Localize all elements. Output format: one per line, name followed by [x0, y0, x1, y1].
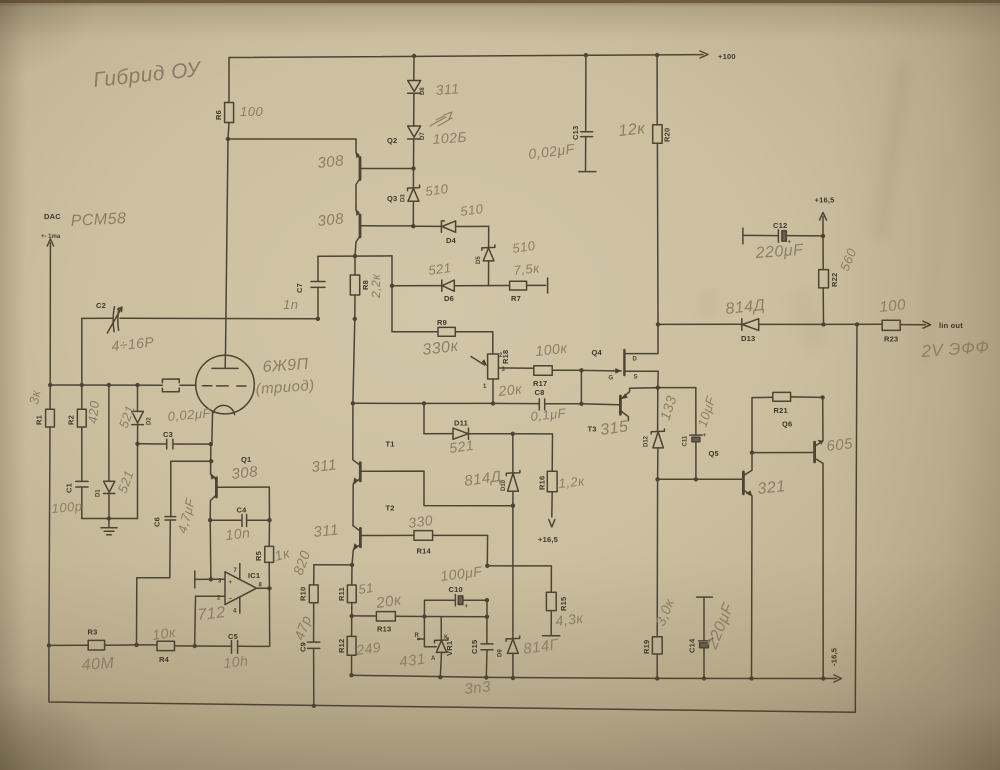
svg-text:1n: 1n — [283, 297, 298, 312]
node R20 D13 junction — [656, 322, 660, 326]
transistor T1 — [311, 403, 513, 525]
resistor R19 — [642, 595, 678, 678]
ground — [101, 519, 117, 535]
svg-text:R23: R23 — [884, 335, 898, 344]
svg-text:D3: D3 — [401, 194, 407, 202]
svg-text:100к: 100к — [535, 340, 569, 359]
svg-text:D11: D11 — [454, 419, 468, 428]
node D12 C11 bottom junction — [655, 477, 698, 481]
svg-text:R13: R13 — [377, 625, 391, 634]
wire D6 branch — [390, 256, 442, 288]
wire C7 R8 top — [318, 255, 392, 257]
svg-text:10n: 10n — [225, 524, 251, 543]
variable capacitor C2 — [82, 301, 318, 354]
svg-text:R9: R9 — [437, 318, 447, 327]
svg-text:R11: R11 — [337, 587, 346, 601]
wire R13 line to C15 — [424, 615, 489, 619]
svg-text:R: R — [415, 633, 420, 639]
capacitor C3 — [138, 405, 213, 449]
svg-text:C10: C10 — [449, 585, 463, 594]
svg-text:R2: R2 — [67, 415, 76, 425]
svg-text:T2: T2 — [386, 504, 395, 513]
svg-text:311: 311 — [313, 521, 340, 541]
svg-text:Q3: Q3 — [387, 194, 397, 203]
svg-text:20к: 20к — [497, 381, 524, 400]
node R8 bottom junction — [353, 317, 357, 321]
wire cathode rail to pin3 — [209, 520, 213, 581]
svg-text:521: 521 — [448, 437, 475, 456]
diode D13 — [658, 297, 824, 343]
svg-text:10h: 10h — [223, 652, 249, 671]
capacitor C7 — [283, 256, 325, 319]
svg-text:102Б: 102Б — [432, 129, 468, 147]
svg-text:D2: D2 — [147, 417, 153, 425]
svg-text:420: 420 — [85, 400, 102, 425]
wire D2 to ground line — [135, 442, 139, 519]
svg-text:R15: R15 — [559, 597, 568, 611]
resistor R6 — [214, 103, 263, 123]
resistor R21 — [750, 392, 823, 454]
resistor R20 — [618, 55, 672, 324]
transistor Q6 — [752, 397, 854, 678]
svg-text:712: 712 — [197, 604, 227, 624]
wire grid line y385 — [48, 383, 196, 388]
zener D12 — [644, 388, 680, 480]
svg-text:R20: R20 — [663, 128, 672, 142]
wire feedback loop — [49, 324, 857, 712]
resistor R16 — [513, 434, 586, 544]
svg-text:R21: R21 — [774, 406, 788, 415]
node R11 R12 R13 junction — [350, 614, 354, 618]
power +16,5 arrow — [815, 196, 835, 239]
node R13 C10 VR1 junction — [422, 614, 426, 618]
svg-text:R4: R4 — [159, 655, 170, 664]
svg-text:Q2: Q2 — [387, 136, 397, 145]
svg-text:R1: R1 — [35, 415, 44, 425]
resistor R5 — [254, 520, 293, 590]
transistor T3 — [588, 388, 658, 439]
svg-text:+100: +100 — [718, 52, 736, 61]
svg-text:D8: D8 — [420, 87, 426, 95]
diode D2 — [116, 385, 153, 444]
vacuum tube V1 6Ж9П triode — [196, 354, 316, 444]
transistor Q3 — [317, 194, 414, 256]
wire D12 to R19 — [656, 479, 658, 637]
capacitor C5 — [193, 588, 270, 671]
svg-text:R19: R19 — [642, 640, 651, 654]
svg-text:R3: R3 — [88, 628, 98, 637]
svg-text:C7: C7 — [295, 283, 304, 293]
resistor R2 — [67, 385, 103, 481]
svg-text:D12: D12 — [644, 435, 650, 447]
resistor R11 — [337, 565, 375, 616]
svg-text:+16,5: +16,5 — [538, 535, 558, 544]
wire D10 to D9 — [512, 506, 514, 639]
diode D6 — [427, 260, 509, 303]
svg-text:+: + — [703, 433, 707, 439]
svg-text:100: 100 — [240, 104, 263, 119]
wire R2 top to C2 line — [81, 318, 83, 385]
transistor T2 — [313, 504, 414, 565]
resistor R8 — [350, 256, 383, 319]
svg-text:VR1: VR1 — [445, 641, 454, 656]
node DAC input label — [41, 210, 127, 240]
capacitor C9 — [291, 613, 320, 708]
diode D4 — [413, 201, 488, 245]
svg-text:100р: 100р — [51, 498, 83, 516]
wire D12 line to Q5 base — [658, 478, 743, 480]
svg-text:−: − — [229, 597, 233, 603]
svg-text:C8: C8 — [535, 388, 545, 397]
svg-text:7,5к: 7,5к — [513, 260, 541, 278]
node Q3 collector rail — [353, 254, 357, 258]
pencil scribble above D7 label — [430, 112, 452, 126]
svg-text:321: 321 — [757, 478, 787, 498]
wire center rail R8 to T1 — [351, 319, 355, 406]
capacitor C14 — [688, 597, 738, 678]
JFET Q4 — [581, 324, 658, 387]
potentiometer R18 — [471, 350, 524, 399]
node Q2 base junction — [411, 166, 415, 170]
svg-text:51: 51 — [357, 580, 374, 597]
svg-text:308: 308 — [231, 463, 259, 483]
capacitor C15 — [464, 600, 493, 698]
svg-text:Q5: Q5 — [709, 449, 719, 458]
node R17 Q4 gate junction — [579, 368, 583, 372]
svg-text:lin out: lin out — [939, 321, 963, 330]
svg-text:D7: D7 — [420, 132, 426, 140]
capacitor C1 — [51, 481, 88, 518]
transistor Q1 — [210, 444, 269, 520]
terminal pin3 input bar — [195, 571, 211, 588]
svg-text:К: К — [444, 635, 448, 641]
zener D9 — [498, 636, 561, 678]
transistor Q2 — [317, 136, 414, 206]
wire output to R23 — [824, 322, 883, 326]
svg-text:10к: 10к — [151, 624, 178, 643]
node T2 emitter junction — [350, 563, 354, 567]
capacitor C12 — [743, 221, 823, 262]
svg-text:D13: D13 — [741, 334, 755, 343]
resistor R10 — [290, 548, 318, 642]
node Q3 base junction — [411, 224, 415, 228]
svg-text:Q1: Q1 — [241, 455, 251, 464]
svg-text:T3: T3 — [588, 425, 597, 434]
svg-text:12к: 12к — [618, 120, 647, 140]
node C7 bottom junction — [316, 317, 320, 321]
svg-text:R5: R5 — [254, 551, 263, 561]
svg-text:605: 605 — [826, 435, 854, 455]
resistor R9 — [392, 286, 493, 359]
shunt regulator VR1 — [398, 617, 454, 678]
svg-text:G: G — [609, 376, 614, 382]
svg-text:311: 311 — [311, 456, 338, 476]
grid stopper plates — [162, 379, 179, 392]
svg-text:3n3: 3n3 — [464, 678, 492, 698]
svg-text:40М: 40М — [81, 655, 115, 674]
zener D5 — [476, 226, 537, 285]
capacitor C4 — [208, 506, 272, 543]
svg-text:C11: C11 — [683, 435, 689, 446]
svg-text:C6: C6 — [153, 517, 162, 527]
svg-text:D4: D4 — [446, 236, 457, 245]
node R3 R4 C6 junction — [134, 643, 138, 647]
capacitor C13 — [527, 55, 595, 171]
svg-text:C12: C12 — [773, 221, 787, 230]
resistor R12 — [337, 616, 382, 675]
svg-text:D9: D9 — [498, 649, 504, 657]
svg-text:РСМ58: РСМ58 — [70, 210, 126, 230]
diode D7 — [408, 126, 468, 169]
svg-text:311: 311 — [435, 80, 460, 98]
resistor R7 — [510, 260, 548, 303]
node C10 right junction — [485, 598, 489, 602]
svg-text:C5: C5 — [228, 632, 238, 641]
resistor R14 — [407, 512, 487, 566]
svg-text:R7: R7 — [511, 294, 521, 303]
svg-text:R14: R14 — [417, 547, 432, 556]
svg-text:R6: R6 — [214, 110, 223, 120]
svg-text:Q4: Q4 — [592, 348, 603, 357]
wire R6 to tube anode — [226, 123, 231, 354]
resistor R22 — [819, 236, 860, 288]
svg-text:100: 100 — [879, 296, 907, 316]
svg-text:3к: 3к — [26, 388, 43, 405]
svg-text:DAC: DAC — [44, 212, 61, 221]
wire R18 pin1 to C8 line — [491, 379, 495, 406]
svg-text:+16,5: +16,5 — [815, 196, 835, 205]
svg-text:1,2к: 1,2к — [558, 473, 586, 491]
capacitor C10 — [424, 563, 487, 617]
resistor R17 — [498, 340, 581, 388]
diode D8 — [408, 56, 460, 126]
svg-text:C4: C4 — [237, 506, 248, 515]
wire Q4 gate branch — [579, 370, 618, 406]
svg-text:C13: C13 — [571, 126, 580, 140]
node cathode C3 junction — [209, 442, 213, 446]
svg-text:R17: R17 — [533, 379, 547, 388]
zener D10 — [463, 434, 520, 506]
svg-text:C14: C14 — [688, 638, 697, 653]
capacitor C6 — [137, 461, 212, 644]
svg-text:2,2к: 2,2к — [369, 273, 383, 299]
svg-text:R16: R16 — [538, 476, 547, 490]
svg-text:C15: C15 — [470, 640, 479, 654]
wire negative supply line — [349, 648, 841, 682]
svg-text:R12: R12 — [337, 639, 346, 653]
resistor R15 — [485, 564, 585, 636]
svg-text:521: 521 — [427, 260, 452, 278]
svg-text:C9: C9 — [299, 642, 308, 652]
svg-text:R18: R18 — [501, 350, 510, 364]
svg-text:Q6: Q6 — [782, 420, 792, 429]
svg-text:А: А — [431, 656, 436, 662]
wire ground line — [82, 516, 138, 520]
wire output node rail R22 — [821, 288, 825, 327]
diode D1 — [96, 385, 137, 519]
transistor Q5 — [709, 449, 787, 678]
svg-text:D1: D1 — [96, 489, 102, 497]
resistor R23 — [879, 296, 990, 361]
svg-text:R10: R10 — [299, 587, 308, 601]
node R21 Q6 emitter junction — [820, 395, 824, 399]
svg-text:+: + — [465, 604, 469, 610]
svg-text:C3: C3 — [163, 430, 173, 439]
op-amp IC1 — [195, 564, 270, 647]
svg-text:220μF: 220μF — [754, 242, 805, 262]
resistor R3 — [47, 628, 137, 674]
svg-text:6Ж9П: 6Ж9П — [262, 356, 309, 376]
node T1 base D10 junction — [511, 504, 515, 508]
svg-text:C1: C1 — [65, 483, 74, 493]
svg-text:-16,5: -16,5 — [830, 648, 839, 666]
resistor R1 — [26, 385, 54, 645]
svg-text:D: D — [633, 357, 638, 363]
wire R6 node to Q2 — [228, 138, 356, 140]
wire R10 branch — [314, 564, 352, 566]
svg-text:C2: C2 — [96, 301, 106, 310]
capacitor C11 — [658, 388, 719, 480]
svg-text:IC1: IC1 — [248, 571, 260, 580]
node C6 branch junction — [209, 459, 213, 463]
wire +100 top rail — [229, 51, 736, 103]
svg-text:R22: R22 — [830, 273, 839, 287]
node Q4 source T3 emitter junction — [656, 386, 660, 390]
svg-text:D5: D5 — [476, 256, 482, 264]
node D11 D10 junction — [511, 432, 515, 436]
wire input arrow to grid line — [47, 239, 53, 385]
resistor R4 — [137, 624, 195, 664]
wire C8 line — [353, 401, 539, 405]
resistor R13 — [352, 592, 425, 634]
svg-text:330: 330 — [407, 512, 434, 531]
svg-text:308: 308 — [317, 152, 345, 172]
svg-text:S: S — [634, 375, 638, 381]
svg-text:T1: T1 — [386, 440, 395, 449]
svg-text:308: 308 — [317, 210, 345, 230]
capacitor C8 — [530, 388, 582, 424]
svg-text:D6: D6 — [444, 294, 454, 303]
svg-text:+: + — [229, 580, 233, 586]
zener D3 — [401, 169, 450, 227]
diode D11 — [424, 403, 513, 456]
